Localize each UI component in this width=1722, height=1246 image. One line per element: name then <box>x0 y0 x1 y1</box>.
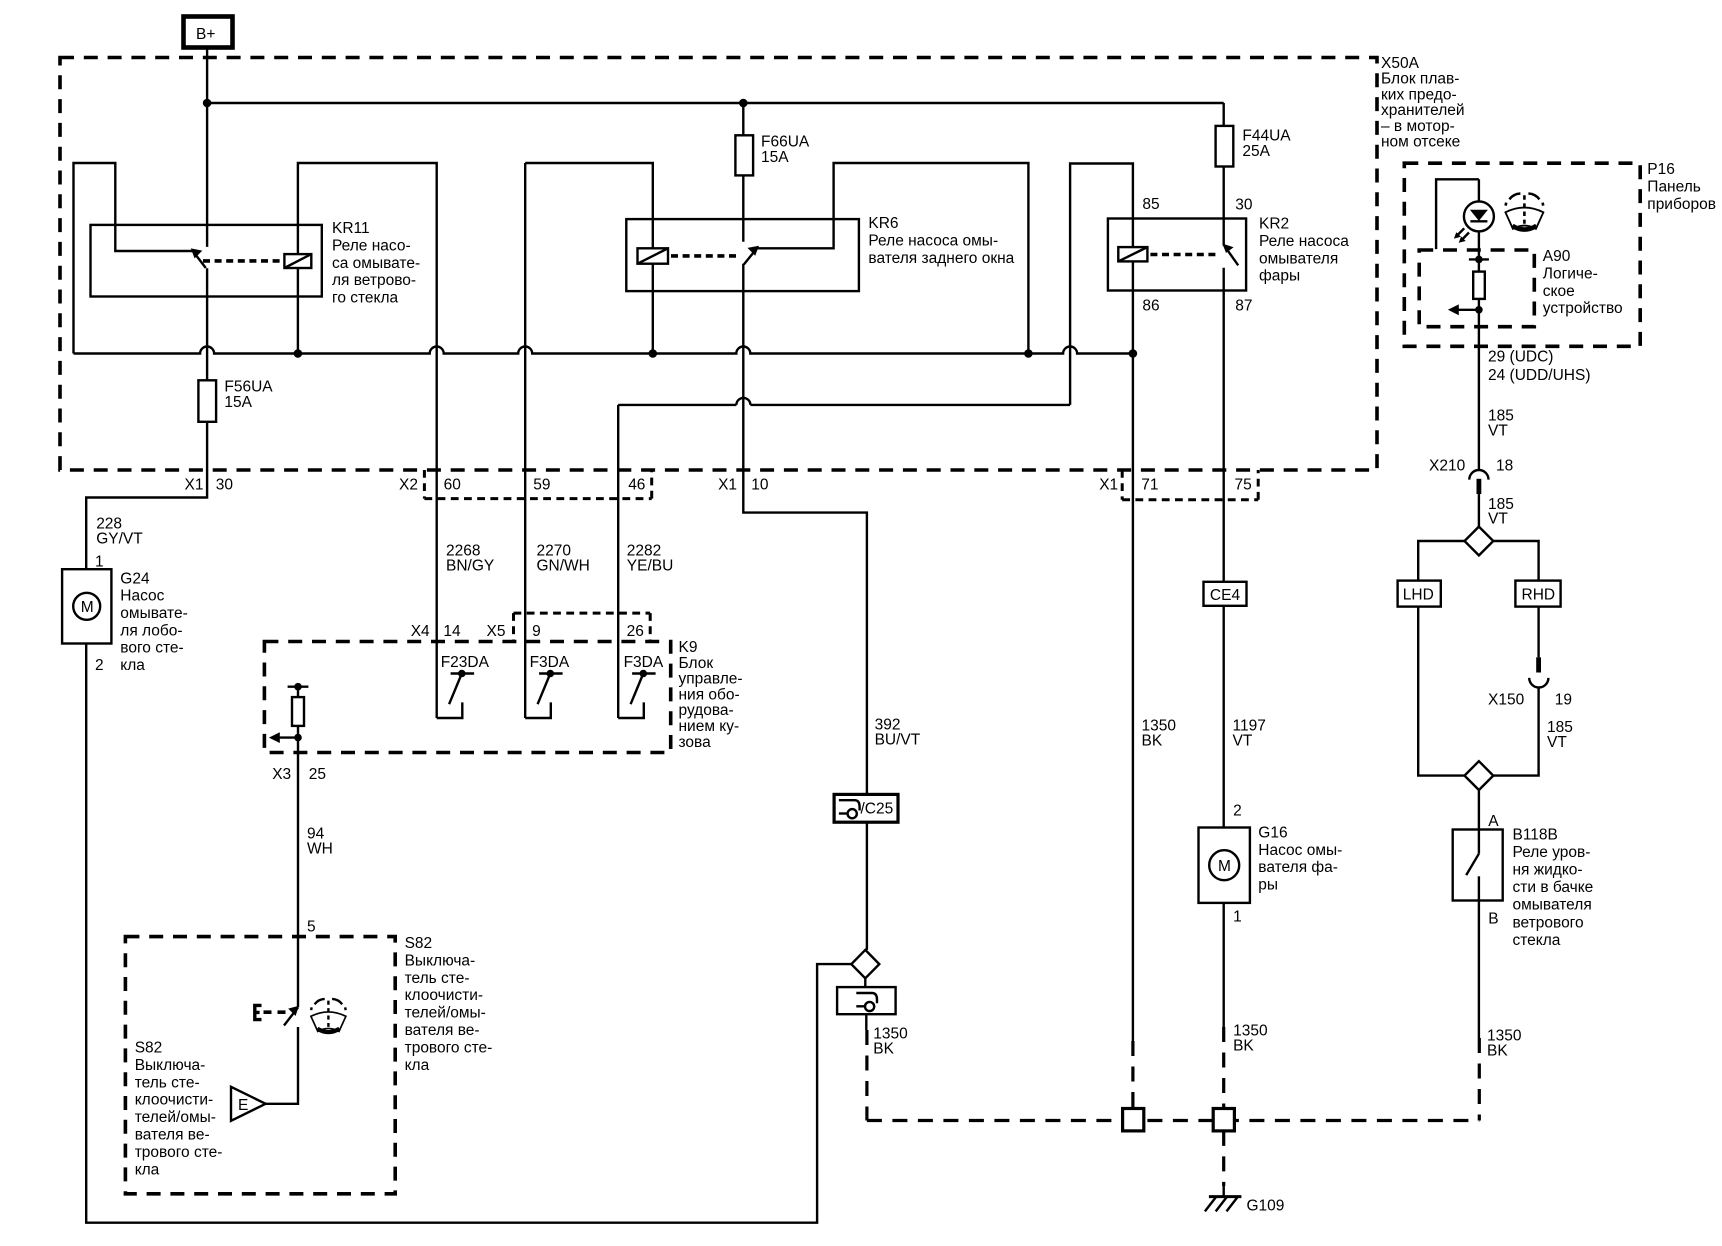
svg-text:GY/VT: GY/VT <box>96 531 143 548</box>
svg-text:трового сте-: трового сте- <box>135 1144 223 1161</box>
svg-text:стекла: стекла <box>1513 932 1561 949</box>
svg-text:Блок плав-: Блок плав- <box>1381 71 1459 88</box>
text S82 label inside <box>135 1040 223 1179</box>
svg-text:ское: ское <box>1543 283 1575 300</box>
svg-text:B+: B+ <box>196 26 215 43</box>
svg-text:тель сте-: тель сте- <box>135 1074 200 1091</box>
wire KR2 pin 87 down to CE4 and G16 <box>1222 268 1224 828</box>
text connector pin labels X4/X5/X3 <box>272 623 644 783</box>
wire G16 return dashed <box>1222 1027 1225 1186</box>
wire KR2 pin85 cross link to X2-46 <box>618 398 1070 405</box>
node KR6 coil to bus <box>649 349 658 358</box>
relay KR11 coil feed staple to pin 60 <box>298 163 437 718</box>
svg-text:омывате-: омывате- <box>120 605 187 622</box>
relay KR6 box <box>626 219 859 291</box>
svg-text:Реле насоса: Реле насоса <box>1259 233 1349 250</box>
svg-text:G16: G16 <box>1258 824 1287 841</box>
svg-text:59: 59 <box>533 477 550 494</box>
svg-text:P16: P16 <box>1647 161 1675 178</box>
switch S82 wiper/washer switch <box>231 1004 299 1121</box>
junction square right <box>1213 1109 1234 1131</box>
washer icon in P16 <box>1505 194 1543 230</box>
wire LHD down to bottom splice <box>1418 607 1464 776</box>
svg-text:26: 26 <box>627 623 644 640</box>
P16 instrument panel box <box>1404 163 1640 346</box>
relay KR6 blade <box>744 248 757 264</box>
text wire labels left <box>95 516 673 936</box>
relay KR2 box <box>1108 219 1246 291</box>
text B118B labels <box>1488 813 1593 949</box>
relay KR2 pin86 wire through bus down to X1-71 <box>1132 261 1134 1041</box>
svg-text:ветрового: ветрового <box>1513 914 1584 931</box>
svg-text:трового сте-: трового сте- <box>405 1039 493 1056</box>
svg-text:ры: ры <box>1258 877 1278 894</box>
splice diamond at C25 <box>851 950 879 978</box>
svg-text:B: B <box>1488 911 1498 928</box>
svg-text:WH: WH <box>307 841 333 858</box>
svg-text:X3: X3 <box>272 766 291 783</box>
LED emission arrows <box>1454 228 1469 243</box>
connector C25 pass-through <box>834 794 898 822</box>
svg-text:– в мотор-: – в мотор- <box>1381 118 1455 135</box>
svg-text:25: 25 <box>309 766 326 783</box>
svg-text:1: 1 <box>95 554 104 571</box>
wire C25 to splice <box>866 822 868 950</box>
svg-text:Выключа-: Выключа- <box>405 952 476 969</box>
wire G24 return to splice <box>86 644 851 1223</box>
svg-text:Насос: Насос <box>120 588 164 605</box>
option box LHD <box>1398 581 1441 607</box>
svg-text:Реле насоса омы-: Реле насоса омы- <box>868 232 998 249</box>
svg-text:LHD: LHD <box>1403 587 1434 604</box>
wire splice to body connector <box>864 978 866 987</box>
svg-text:кла: кла <box>120 657 145 674</box>
svg-text:A90: A90 <box>1543 248 1571 265</box>
fuse F66UA <box>735 135 753 175</box>
svg-text:BU/VT: BU/VT <box>875 732 921 749</box>
svg-text:вателя заднего окна: вателя заднего окна <box>868 250 1014 267</box>
text X210/X150 labels <box>1429 458 1572 709</box>
svg-text:фары: фары <box>1259 268 1300 285</box>
text fuse labels <box>224 128 1291 412</box>
svg-text:24 (UDD/UHS): 24 (UDD/UHS) <box>1488 367 1590 384</box>
connector X210 <box>1469 470 1488 494</box>
svg-text:YE/BU: YE/BU <box>627 558 674 575</box>
svg-text:X1: X1 <box>718 477 737 494</box>
relay KR11 blade <box>193 251 206 268</box>
svg-text:2: 2 <box>95 657 104 674</box>
svg-text:75: 75 <box>1235 477 1252 494</box>
svg-text:F3DA: F3DA <box>530 654 570 671</box>
text 29/24 pin labels <box>1488 349 1590 384</box>
wire A90 output down to X210 <box>1478 310 1480 470</box>
text 1350 BK labels bottom <box>873 1023 1522 1060</box>
svg-text:VT: VT <box>1488 511 1508 528</box>
svg-text:вателя ве-: вателя ве- <box>405 1022 480 1039</box>
svg-text:29 (UDC): 29 (UDC) <box>1488 349 1553 366</box>
relay KR6 coil <box>638 248 669 263</box>
wire F44UA branch to KR2 common <box>1222 103 1224 246</box>
svg-text:18: 18 <box>1496 458 1513 475</box>
svg-text:30: 30 <box>216 476 234 493</box>
svg-text:F56UA: F56UA <box>224 378 273 395</box>
svg-text:A: A <box>1488 813 1499 830</box>
svg-text:ля ветрово-: ля ветрово- <box>332 272 416 289</box>
text KR2 pin numbers <box>1142 196 1253 315</box>
K9 switch F3DA (pin 26) <box>618 670 655 718</box>
svg-text:Блок: Блок <box>679 655 714 672</box>
svg-text:ня жидко-: ня жидко- <box>1513 862 1583 879</box>
svg-text:VT: VT <box>1233 732 1253 749</box>
relay KR11 actuation dashed link <box>203 259 282 263</box>
svg-text:Реле уров-: Реле уров- <box>1513 844 1591 861</box>
svg-text:ля лобо-: ля лобо- <box>120 622 182 639</box>
svg-text:Панель: Панель <box>1647 178 1701 195</box>
splice diamond LHD/RHD top <box>1465 527 1494 556</box>
svg-text:M: M <box>1218 858 1231 875</box>
wire to LHD <box>1418 541 1464 581</box>
wire KR11 lower contact down through fuse to X1-30 and G24 <box>86 268 207 569</box>
K9 body control module box <box>264 642 670 753</box>
svg-text:B118B: B118B <box>1513 826 1558 843</box>
svg-text:F66UA: F66UA <box>761 133 810 150</box>
svg-text:KR6: KR6 <box>868 215 898 232</box>
svg-text:управле-: управле- <box>679 671 743 688</box>
relay KR2 blade <box>1224 246 1238 266</box>
text A90 label <box>1543 248 1623 317</box>
svg-text:14: 14 <box>443 623 461 640</box>
svg-text:Выключа-: Выключа- <box>135 1057 206 1074</box>
svg-text:приборов: приборов <box>1647 196 1716 213</box>
text S82 label right <box>405 935 493 1074</box>
relay KR6 coil ground wire <box>652 264 654 354</box>
svg-text:X50A: X50A <box>1381 55 1420 72</box>
wire to RHD <box>1493 541 1538 581</box>
relay KR11 coil <box>284 254 311 268</box>
svg-text:ном отсеке: ном отсеке <box>1381 134 1460 151</box>
wire X150 to bottom splice <box>1493 688 1538 776</box>
relay KR6 actuation dashed link <box>671 254 740 258</box>
svg-text:рудова-: рудова- <box>679 702 734 719</box>
svg-text:5: 5 <box>307 919 316 936</box>
relay KR6 pin 59 wire down to K9 <box>524 163 526 718</box>
text connector pin labels row X1/X2 <box>185 476 1252 493</box>
A90 logic device box <box>1419 250 1534 327</box>
wire B118B return dashed <box>1478 1038 1481 1121</box>
svg-text:BK: BK <box>1487 1043 1508 1060</box>
svg-text:46: 46 <box>628 477 645 494</box>
wire RHD down to X150 <box>1537 607 1539 658</box>
connector X5 box <box>514 613 651 642</box>
svg-text:вого сте-: вого сте- <box>120 640 183 657</box>
LED indicator in P16 <box>1436 179 1494 259</box>
svg-text:25A: 25A <box>1242 143 1270 160</box>
svg-text:85: 85 <box>1142 196 1159 213</box>
svg-text:вателя фа-: вателя фа- <box>1258 859 1338 876</box>
svg-text:71: 71 <box>1141 477 1158 494</box>
svg-text:зова: зова <box>679 734 712 751</box>
svg-text:19: 19 <box>1555 692 1572 709</box>
svg-text:Насос омы-: Насос омы- <box>1258 842 1342 859</box>
svg-text:X2: X2 <box>399 477 418 494</box>
svg-text:87: 87 <box>1235 298 1252 315</box>
svg-text:1: 1 <box>1233 909 1242 926</box>
svg-text:M: M <box>81 599 94 616</box>
svg-text:KR11: KR11 <box>332 220 370 237</box>
wire top feed rail <box>207 102 1224 104</box>
washer icon in S82 <box>311 999 346 1032</box>
svg-text:F23DA: F23DA <box>441 654 490 671</box>
svg-text:клоочисти-: клоочисти- <box>405 987 483 1004</box>
text KR11 label <box>332 220 420 307</box>
splice diamond bottom <box>1465 761 1494 790</box>
svg-text:сти в бачке: сти в бачке <box>1513 879 1594 896</box>
battery feed B+ terminal <box>184 17 233 48</box>
text 1350 BK label (KR2-86) <box>1142 718 1177 750</box>
fuse F56UA <box>198 380 216 422</box>
relay KR6 coil feed staple <box>525 163 653 248</box>
svg-text:омывателя: омывателя <box>1513 897 1592 914</box>
relay KR11 coil ground wire <box>297 268 299 354</box>
svg-text:K9: K9 <box>679 639 698 656</box>
wire body connector to ground rail <box>865 1014 867 1030</box>
text KR2 label <box>1259 216 1349 285</box>
connector CE4 <box>1204 582 1247 606</box>
node KR2 pin86 to bus <box>1129 349 1138 358</box>
svg-text:GN/WH: GN/WH <box>537 558 590 575</box>
svg-text:CE4: CE4 <box>1210 587 1241 604</box>
wire X210 to splice diamond <box>1478 494 1480 527</box>
svg-text:KR2: KR2 <box>1259 216 1289 233</box>
svg-text:E: E <box>238 1097 248 1114</box>
node KR11 coil to bus <box>294 349 303 358</box>
wire F66UA branch to KR6 upper contact <box>742 103 744 242</box>
wire KR6 lower contact to X1-10 and C25 <box>743 264 867 796</box>
option box RHD <box>1515 581 1560 607</box>
svg-text:VT: VT <box>1488 423 1508 440</box>
relay KR2 pin85 staple <box>1070 164 1133 405</box>
svg-text:BK: BK <box>1142 732 1163 749</box>
svg-text:телей/омы-: телей/омы- <box>135 1109 216 1126</box>
relay KR11 box <box>91 225 322 297</box>
S82 switch box <box>125 937 395 1194</box>
wire B118B down to ground rail <box>1478 901 1480 1039</box>
svg-text:30: 30 <box>1235 197 1253 214</box>
text K9 label <box>679 639 743 751</box>
svg-text:X4: X4 <box>411 623 430 640</box>
svg-text:омывателя: омывателя <box>1259 250 1338 267</box>
svg-text:15A: 15A <box>224 394 252 411</box>
A90 resistor and arrow assembly <box>1448 256 1489 316</box>
connector body pass-through <box>837 987 896 1014</box>
svg-text:60: 60 <box>444 477 462 494</box>
svg-text:X1: X1 <box>185 476 204 493</box>
junction square left <box>1123 1109 1144 1131</box>
svg-text:телей/омы-: телей/омы- <box>405 1005 486 1022</box>
svg-text:VT: VT <box>1547 734 1567 751</box>
text G24 label <box>120 570 187 674</box>
svg-text:хранителей: хранителей <box>1381 102 1465 119</box>
relay B118B washer fluid level <box>1453 830 1503 901</box>
node junction F66UA branch <box>739 99 748 108</box>
svg-text:кла: кла <box>135 1161 160 1178</box>
connector X2 box <box>424 470 651 499</box>
ground rail dashed <box>867 1119 1479 1122</box>
connector X1 (71/75) box <box>1122 470 1258 500</box>
svg-text:/C25: /C25 <box>861 801 894 818</box>
ground G109 <box>1205 1186 1242 1211</box>
svg-text:BK: BK <box>873 1041 894 1058</box>
svg-text:Логиче-: Логиче- <box>1543 265 1598 282</box>
relay KR2 actuation dashed link <box>1150 253 1220 257</box>
svg-text:G109: G109 <box>1247 1198 1285 1215</box>
svg-text:BN/GY: BN/GY <box>446 558 494 575</box>
svg-text:2: 2 <box>1233 803 1242 820</box>
K9 resistor and arrow assembly (pin 25) <box>269 683 309 1007</box>
svg-text:RHD: RHD <box>1522 587 1556 604</box>
text P16 label <box>1647 161 1716 213</box>
wire KR2-86 return dashed <box>1131 1041 1134 1109</box>
text 185 VT labels <box>1488 408 1573 752</box>
svg-text:клоочисти-: клоочисти- <box>135 1092 213 1109</box>
svg-text:кла: кла <box>405 1057 430 1074</box>
wire G16 to ground label area <box>1222 903 1224 1027</box>
svg-text:15A: 15A <box>761 149 789 166</box>
wire pin46 down to K9 F3DA <box>617 405 619 718</box>
svg-text:са омывате-: са омывате- <box>332 255 420 272</box>
relay KR2 coil <box>1118 247 1147 261</box>
svg-text:ких предо-: ких предо- <box>1381 86 1457 103</box>
node KR6 common staple to bus <box>1024 349 1033 358</box>
relay KR11 common feed staple <box>74 163 193 354</box>
svg-text:X1: X1 <box>1099 476 1118 493</box>
svg-text:тель сте-: тель сте- <box>405 970 470 987</box>
pump G16 headlight washer pump <box>1199 828 1250 903</box>
text K9 fuse switch labels <box>441 654 664 671</box>
node junction B+ rail <box>203 99 212 108</box>
svg-text:F3DA: F3DA <box>624 654 664 671</box>
svg-text:вателя ве-: вателя ве- <box>135 1127 210 1144</box>
K9 switch F23DA (pin 14) <box>437 670 474 718</box>
fuse F44UA <box>1216 126 1234 167</box>
svg-text:устройство: устройство <box>1543 300 1623 317</box>
svg-text:10: 10 <box>751 477 769 494</box>
svg-text:S82: S82 <box>405 935 433 952</box>
wire B+ feed down to KR11 upper contact <box>206 48 208 247</box>
text 1197 VT label <box>1233 718 1266 750</box>
svg-text:F44UA: F44UA <box>1242 128 1291 145</box>
svg-text:X150: X150 <box>1488 692 1525 709</box>
relay KR6 common staple to bus <box>757 163 1029 354</box>
svg-text:X210: X210 <box>1429 458 1466 475</box>
wire bus inside X50A with hops <box>74 347 1133 354</box>
svg-text:86: 86 <box>1142 298 1159 315</box>
svg-text:S82: S82 <box>135 1040 163 1057</box>
K9 switch F3DA (pin 9) <box>525 670 562 718</box>
connector X150 <box>1529 657 1548 687</box>
svg-text:ния обо-: ния обо- <box>679 686 740 703</box>
svg-text:Реле насо-: Реле насо- <box>332 237 411 254</box>
text KR6 label <box>868 215 1014 267</box>
svg-text:BK: BK <box>1233 1038 1254 1055</box>
svg-text:го стекла: го стекла <box>332 290 399 307</box>
svg-text:G24: G24 <box>120 570 150 587</box>
text 392 BU/VT label <box>875 717 921 749</box>
svg-text:9: 9 <box>532 623 541 640</box>
text G16 labels <box>1233 803 1342 926</box>
X50A fuse box boundary <box>60 58 1377 471</box>
wire splice to B118B <box>1478 790 1480 830</box>
text X50A label <box>1381 55 1465 151</box>
svg-text:X5: X5 <box>487 623 506 640</box>
pump G24 windshield washer pump <box>62 569 111 643</box>
svg-text:нием ку-: нием ку- <box>679 718 740 735</box>
